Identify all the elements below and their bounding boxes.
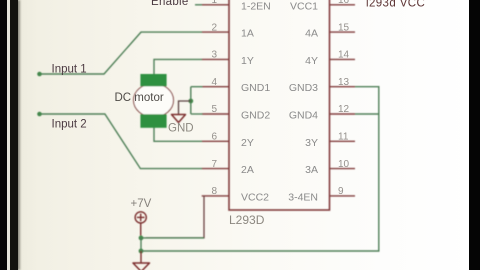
wire Input 2 net	[40, 114, 203, 169]
motor M1 top terminal	[140, 74, 166, 86]
svg-text:GND2: GND2	[241, 110, 270, 122]
wire +7V node horizontal	[141, 237, 204, 239]
svg-text:3: 3	[211, 50, 217, 61]
pin 3 stub	[202, 58, 229, 60]
svg-text:6: 6	[211, 132, 217, 143]
svg-text:3A: 3A	[305, 164, 318, 176]
svg-text:12: 12	[338, 104, 350, 115]
svg-text:16: 16	[338, 0, 350, 6]
svg-text:8: 8	[211, 186, 217, 197]
wire GND1-GND2 vertical	[190, 87, 192, 114]
pin 4 stub	[202, 86, 229, 88]
svg-text:Enable: Enable	[151, 0, 189, 8]
ground symbol near motor	[172, 115, 186, 123]
node +7V junction	[139, 236, 144, 241]
wire pin 5 to GND junction	[191, 113, 203, 115]
ground symbol bottom	[133, 263, 150, 270]
pin 16 stub	[330, 4, 356, 6]
supply symbol +7V	[135, 212, 146, 236]
svg-text:1-2EN: 1-2EN	[241, 0, 271, 12]
pin 11 stub	[330, 140, 356, 142]
wire between power junction and ground junction	[140, 238, 142, 251]
pin 9 stub	[330, 195, 356, 197]
pin numbers left	[211, 0, 217, 197]
svg-text:4A: 4A	[305, 28, 318, 40]
pin 12 stub	[330, 113, 356, 115]
svg-text:L293D: L293D	[229, 213, 265, 227]
svg-text:l293d VCC: l293d VCC	[366, 0, 425, 10]
svg-text:3Y: 3Y	[305, 137, 318, 149]
svg-text:9: 9	[338, 186, 344, 197]
svg-text:GND3: GND3	[289, 82, 318, 94]
node ground junction	[139, 249, 144, 254]
svg-text:VCC1: VCC1	[290, 0, 318, 12]
svg-text:2A: 2A	[241, 164, 254, 176]
svg-text:1: 1	[211, 0, 217, 6]
svg-text:+7V: +7V	[131, 198, 152, 210]
wire Enable net	[195, 4, 202, 6]
svg-text:GND4: GND4	[289, 110, 318, 122]
motor M1 bottom terminal	[140, 114, 166, 128]
pin 6 stub	[202, 140, 229, 142]
left film frame bars (decorative)	[0, 0, 7, 270]
pin names right column	[288, 0, 318, 203]
svg-text:2: 2	[211, 22, 217, 33]
svg-text:11: 11	[338, 132, 349, 143]
svg-text:7: 7	[211, 159, 217, 170]
pin 14 stub	[330, 58, 356, 60]
wire junction to ground symbol	[179, 101, 191, 115]
IC U1 L293D body	[229, 0, 330, 210]
svg-text:15: 15	[338, 22, 350, 33]
motor M1 circle	[134, 84, 174, 118]
pin 5 stub	[202, 113, 229, 115]
wire GND4 pin12 to bus	[355, 113, 379, 115]
pin 2 stub	[202, 31, 229, 33]
pin 15 stub	[330, 31, 356, 33]
pin 8 stub	[202, 195, 229, 197]
node Input 2 endpoint	[37, 112, 42, 117]
svg-text:13: 13	[338, 77, 350, 88]
svg-text:5: 5	[211, 104, 217, 115]
wire pin8 VCC2 down to +7V node	[146, 196, 204, 238]
svg-text:3-4EN: 3-4EN	[288, 191, 318, 203]
node Input 1 endpoint	[37, 72, 42, 77]
pin 7 stub	[202, 168, 229, 170]
svg-text:GND1: GND1	[241, 82, 270, 94]
node GND junction	[188, 99, 193, 104]
wire Input 1 net	[40, 32, 203, 74]
svg-text:4: 4	[211, 77, 217, 88]
svg-text:GND: GND	[168, 123, 194, 135]
svg-text:1A: 1A	[241, 28, 254, 40]
svg-text:10: 10	[338, 159, 350, 170]
wire pin3 1Y to motor top	[154, 59, 202, 76]
wire motor bottom to pin6 2Y	[154, 127, 202, 141]
svg-text:VCC2: VCC2	[241, 191, 269, 203]
svg-text:4Y: 4Y	[305, 55, 318, 67]
svg-text:14: 14	[338, 50, 350, 61]
svg-text:Input 2: Input 2	[52, 119, 87, 131]
pin 1 stub	[202, 4, 229, 6]
wire pin 4 to GND junction	[191, 86, 203, 88]
pin 10 stub	[330, 168, 356, 170]
pin 13 stub	[330, 86, 356, 88]
svg-text:2Y: 2Y	[241, 137, 254, 149]
pin numbers right	[338, 0, 350, 197]
svg-text:Input 1: Input 1	[52, 64, 87, 76]
svg-text:DC motor: DC motor	[115, 92, 164, 104]
wire ground bus to GND3 GND4	[141, 87, 379, 251]
svg-text:1Y: 1Y	[241, 55, 254, 67]
wire stem to bottom ground	[140, 251, 142, 263]
pin names left column	[241, 0, 271, 203]
